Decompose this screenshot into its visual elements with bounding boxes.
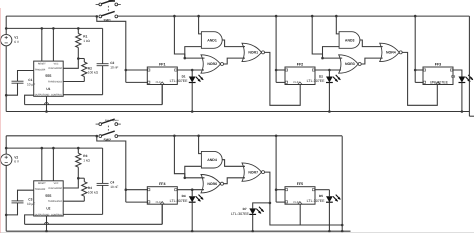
wire rail to AND upper input [197,15,201,34]
svg-text:DISCHARGE: DISCHARGE [49,67,63,70]
LED D3 [430,74,473,112]
wire J input FF1 [126,69,148,71]
flip-flop FF3 [423,62,453,84]
wire Q output FF3 [453,70,462,77]
svg-text:VCC: VCC [54,182,59,185]
wire rail to AND3 upper input [335,15,339,34]
wire NOR4 output to FF3 CLK [402,52,437,105]
svg-text:CONTROL: CONTROL [51,213,63,216]
svg-text:D5: D5 [319,194,323,198]
svg-text:TRIGGER: TRIGGER [35,188,46,191]
gate NOR4 [380,43,403,61]
svg-text:DISCHARGE: DISCHARGE [49,187,63,190]
wire rail to NOR upper input [173,135,204,180]
wire top rail right segment [118,135,343,137]
wire THRESHOLD pin [63,200,84,202]
capacitor C4 [97,148,119,214]
svg-text:555: 555 [45,74,51,78]
flip-flop FF4 [147,182,177,204]
svg-text:R3: R3 [83,154,87,158]
svg-text:C1: C1 [28,78,32,82]
svg-text:RESET: RESET [38,182,46,185]
svg-text:CONTROL: CONTROL [51,94,63,97]
wire AND3 output [360,40,383,47]
gate NOR6 [201,175,224,193]
wire left bus vertical [5,16,7,111]
svg-text:FF1: FF1 [159,62,165,66]
wire THRESHOLD pin [63,81,84,83]
svg-text:CLK: CLK [156,81,161,84]
svg-text:D7: D7 [243,207,247,211]
svg-text:U1: U1 [46,87,50,91]
gate AND3 [339,32,360,49]
capacitor C1 [6,71,35,96]
wire CONTROL pin [63,213,102,215]
wire rail to NOR upper input [173,15,204,60]
svg-text:AND3: AND3 [345,38,355,42]
svg-text:GND: GND [44,213,49,216]
LED D5 [307,190,341,233]
wire Q output FF5 [315,189,329,191]
node discharge junction [77,57,80,60]
LED D4 [170,190,204,233]
wire VCC pin [52,148,54,181]
svg-text:555: 555 [45,194,51,198]
wire right edge bus [469,16,474,116]
wire top rail left segment (V2+ to SW) [6,135,97,137]
flip-flop FF5 [285,182,315,204]
wire VCC pin [52,28,54,61]
key label smudge above SW2 [105,119,119,122]
wire right edge bus row2 [300,136,343,231]
svg-text:U2: U2 [46,207,50,211]
gate NOR2 [201,55,224,73]
wire RESET pin [41,28,43,61]
svg-text:R1: R1 [83,35,87,39]
wire GND pin [45,96,49,112]
voltage source V2 [1,154,20,165]
LED D2 [307,70,341,113]
node VCC rail [5,27,103,30]
resistor R2 [78,59,98,82]
wire Q output FF1 [177,69,204,72]
capacitor C2 [97,28,119,94]
svg-text:100 kΩ: 100 kΩ [88,71,99,75]
svg-text:NOR2: NOR2 [207,62,217,66]
svg-text:THRESHOLD: THRESHOLD [48,80,63,83]
wire NOR3 output [361,58,383,64]
svg-text:GND: GND [44,94,49,97]
svg-text:VCC: VCC [54,63,59,66]
wire AND3 lower input riser [323,47,340,59]
wire RESET pin [41,148,43,181]
svg-text:NOR4: NOR4 [386,51,396,55]
wire rail to FF3 J-K [414,15,423,83]
svg-text:FF2: FF2 [297,62,303,66]
svg-text:FF5: FF5 [297,182,303,186]
wire AND4 output [222,160,245,167]
gate NOR1 [242,43,265,61]
gate AND4 [201,151,222,168]
node C1 ground junction [5,94,8,97]
wire D7 anode tap [253,202,272,209]
svg-text:D2: D2 [319,74,323,78]
node VCC rail [5,147,103,150]
svg-text:C3: C3 [28,198,32,202]
svg-text:1 kΩ: 1 kΩ [83,159,90,163]
svg-text:100 kΩ: 100 kΩ [88,190,99,194]
wire NOR6 output [224,178,246,184]
svg-text:D1: D1 [182,74,186,78]
svg-text:NOR7: NOR7 [248,170,258,174]
node C1 ground junction [5,214,8,217]
LED D7 [231,207,264,233]
svg-text:FF3: FF3 [435,62,441,66]
wire Q output FF2 [315,69,341,72]
wire CLK FF1 [161,85,163,105]
op-amp timer U1 555 [34,61,64,97]
wire left bus vertical [5,136,7,231]
gate NOR3 [339,55,362,73]
capacitor C3 [6,190,35,215]
resistor R3 [76,148,91,178]
wire clock rail [25,85,163,105]
svg-text:NOR1: NOR1 [248,51,258,55]
svg-text:CLK: CLK [293,201,298,204]
wire OUTPUT pin [25,215,34,224]
resistor R1 [76,28,91,58]
wire CONTROL pin [63,94,102,96]
resistor R4 [78,178,98,201]
svg-text:THRESHOLD: THRESHOLD [48,200,63,203]
wire NOR2 output [224,58,246,64]
switch SW2 [96,119,121,142]
wire CLK FF4 [161,204,163,224]
svg-text:RESET: RESET [38,63,46,66]
wire GND pin [45,216,49,233]
wire J input FF4 [126,189,148,191]
wire AND lower input riser [185,47,202,59]
wire Q output FF4 [177,188,204,191]
LED D1 [170,70,204,113]
svg-text:NOR6: NOR6 [207,182,217,186]
bottom edge artifact [0,232,474,234]
svg-text:AND4: AND4 [207,158,217,162]
svg-text:10 nF: 10 nF [110,65,118,69]
wire DISCHARGE pin [63,59,78,69]
wire NOR1 output to next CLK [265,52,301,105]
flip-flop FF2 [285,62,315,84]
switch SW1 [96,0,121,22]
svg-text:LTL-307EE: LTL-307EE [307,79,326,83]
gate NOR7 [242,163,265,181]
wire rail to FF5 J-K [275,135,285,203]
op-amp timer U2 555 [34,181,64,217]
wire top rail right segment [118,15,470,17]
wire clock rail [25,204,163,224]
left edge artifact [0,8,2,233]
node discharge junction [77,177,80,180]
wire SW bypass to FF J-K [97,136,127,202]
wire rail to FF2 J-K [275,15,285,83]
flip-flop FF1 [147,62,177,84]
wire DISCHARGE pin [63,178,78,188]
svg-text:LTL-307EE: LTL-307EE [170,199,189,203]
wire ground rail row1 [6,111,469,113]
wire rail to NOR3 upper input [311,15,342,60]
voltage source V1 [1,34,20,45]
svg-text:D4: D4 [182,194,186,198]
wire rail to AND upper input [197,135,201,154]
svg-text:D3: D3 [451,74,455,78]
wire K input FF4 [126,201,148,203]
wire top rail left segment (V1+ to SW) [6,15,97,17]
svg-text:10 nF: 10 nF [110,185,118,189]
wire NOR7 output to next CLK [265,172,301,225]
wire K input FF1 [126,81,148,83]
svg-text:CLK: CLK [156,201,161,204]
svg-text:1 kΩ: 1 kΩ [83,39,90,43]
wire ground rail row2 [6,230,350,233]
wire SW bypass to FF J-K [97,16,127,82]
svg-text:AND1: AND1 [207,38,217,42]
svg-text:FF4: FF4 [159,182,165,186]
svg-text:NOR3: NOR3 [345,62,355,66]
svg-text:LTL-307EE: LTL-307EE [170,79,189,83]
key label smudge above SW1 (cropped) [109,0,116,2]
svg-text:LTL-307EE: LTL-307EE [430,81,449,85]
wire OUTPUT pin [25,95,34,104]
svg-text:LTL-307EE: LTL-307EE [231,212,250,216]
svg-text:CLK: CLK [293,81,298,84]
wire AND1 output [222,40,245,47]
svg-text:LTL-307EE: LTL-307EE [307,199,326,203]
wire AND lower input riser [185,166,202,178]
gate AND1 [201,32,222,49]
svg-text:TRIGGER: TRIGGER [35,68,46,71]
